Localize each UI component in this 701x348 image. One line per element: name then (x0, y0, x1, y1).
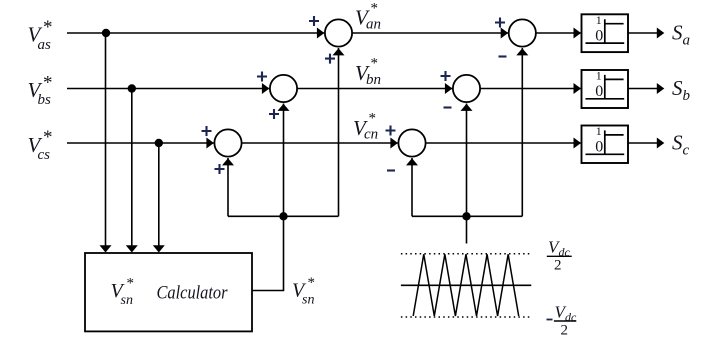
svg-text:1: 1 (596, 124, 602, 138)
svg-text:as: as (38, 37, 52, 53)
svg-text:bn: bn (366, 72, 381, 88)
svg-text:S: S (672, 131, 683, 155)
svg-text:an: an (366, 17, 381, 33)
svg-text:cn: cn (364, 127, 378, 143)
svg-text:2: 2 (561, 323, 569, 339)
svg-text:S: S (672, 76, 683, 100)
svg-text:b: b (683, 88, 691, 104)
svg-text:*: * (369, 111, 377, 127)
svg-text:2: 2 (554, 258, 562, 274)
svg-text:cs: cs (38, 147, 51, 163)
svg-text:c: c (683, 142, 690, 158)
svg-text:*: * (43, 73, 53, 94)
svg-text:*: * (43, 127, 53, 148)
svg-text:*: * (43, 17, 53, 38)
svg-text:*: * (371, 1, 379, 17)
svg-text:1: 1 (596, 13, 602, 27)
svg-text:sn: sn (302, 293, 314, 308)
svg-text:*: * (371, 56, 379, 72)
svg-text:0: 0 (595, 27, 603, 44)
svg-text:a: a (683, 32, 691, 48)
svg-text:bs: bs (38, 92, 52, 108)
svg-text:Calculator: Calculator (157, 283, 229, 304)
svg-text:0: 0 (595, 83, 603, 100)
svg-text:S: S (672, 21, 683, 45)
svg-text:1: 1 (596, 69, 602, 83)
svg-text:sn: sn (121, 293, 133, 308)
svg-text:0: 0 (595, 139, 603, 156)
svg-text:*: * (127, 276, 135, 292)
svg-text:*: * (308, 275, 316, 291)
